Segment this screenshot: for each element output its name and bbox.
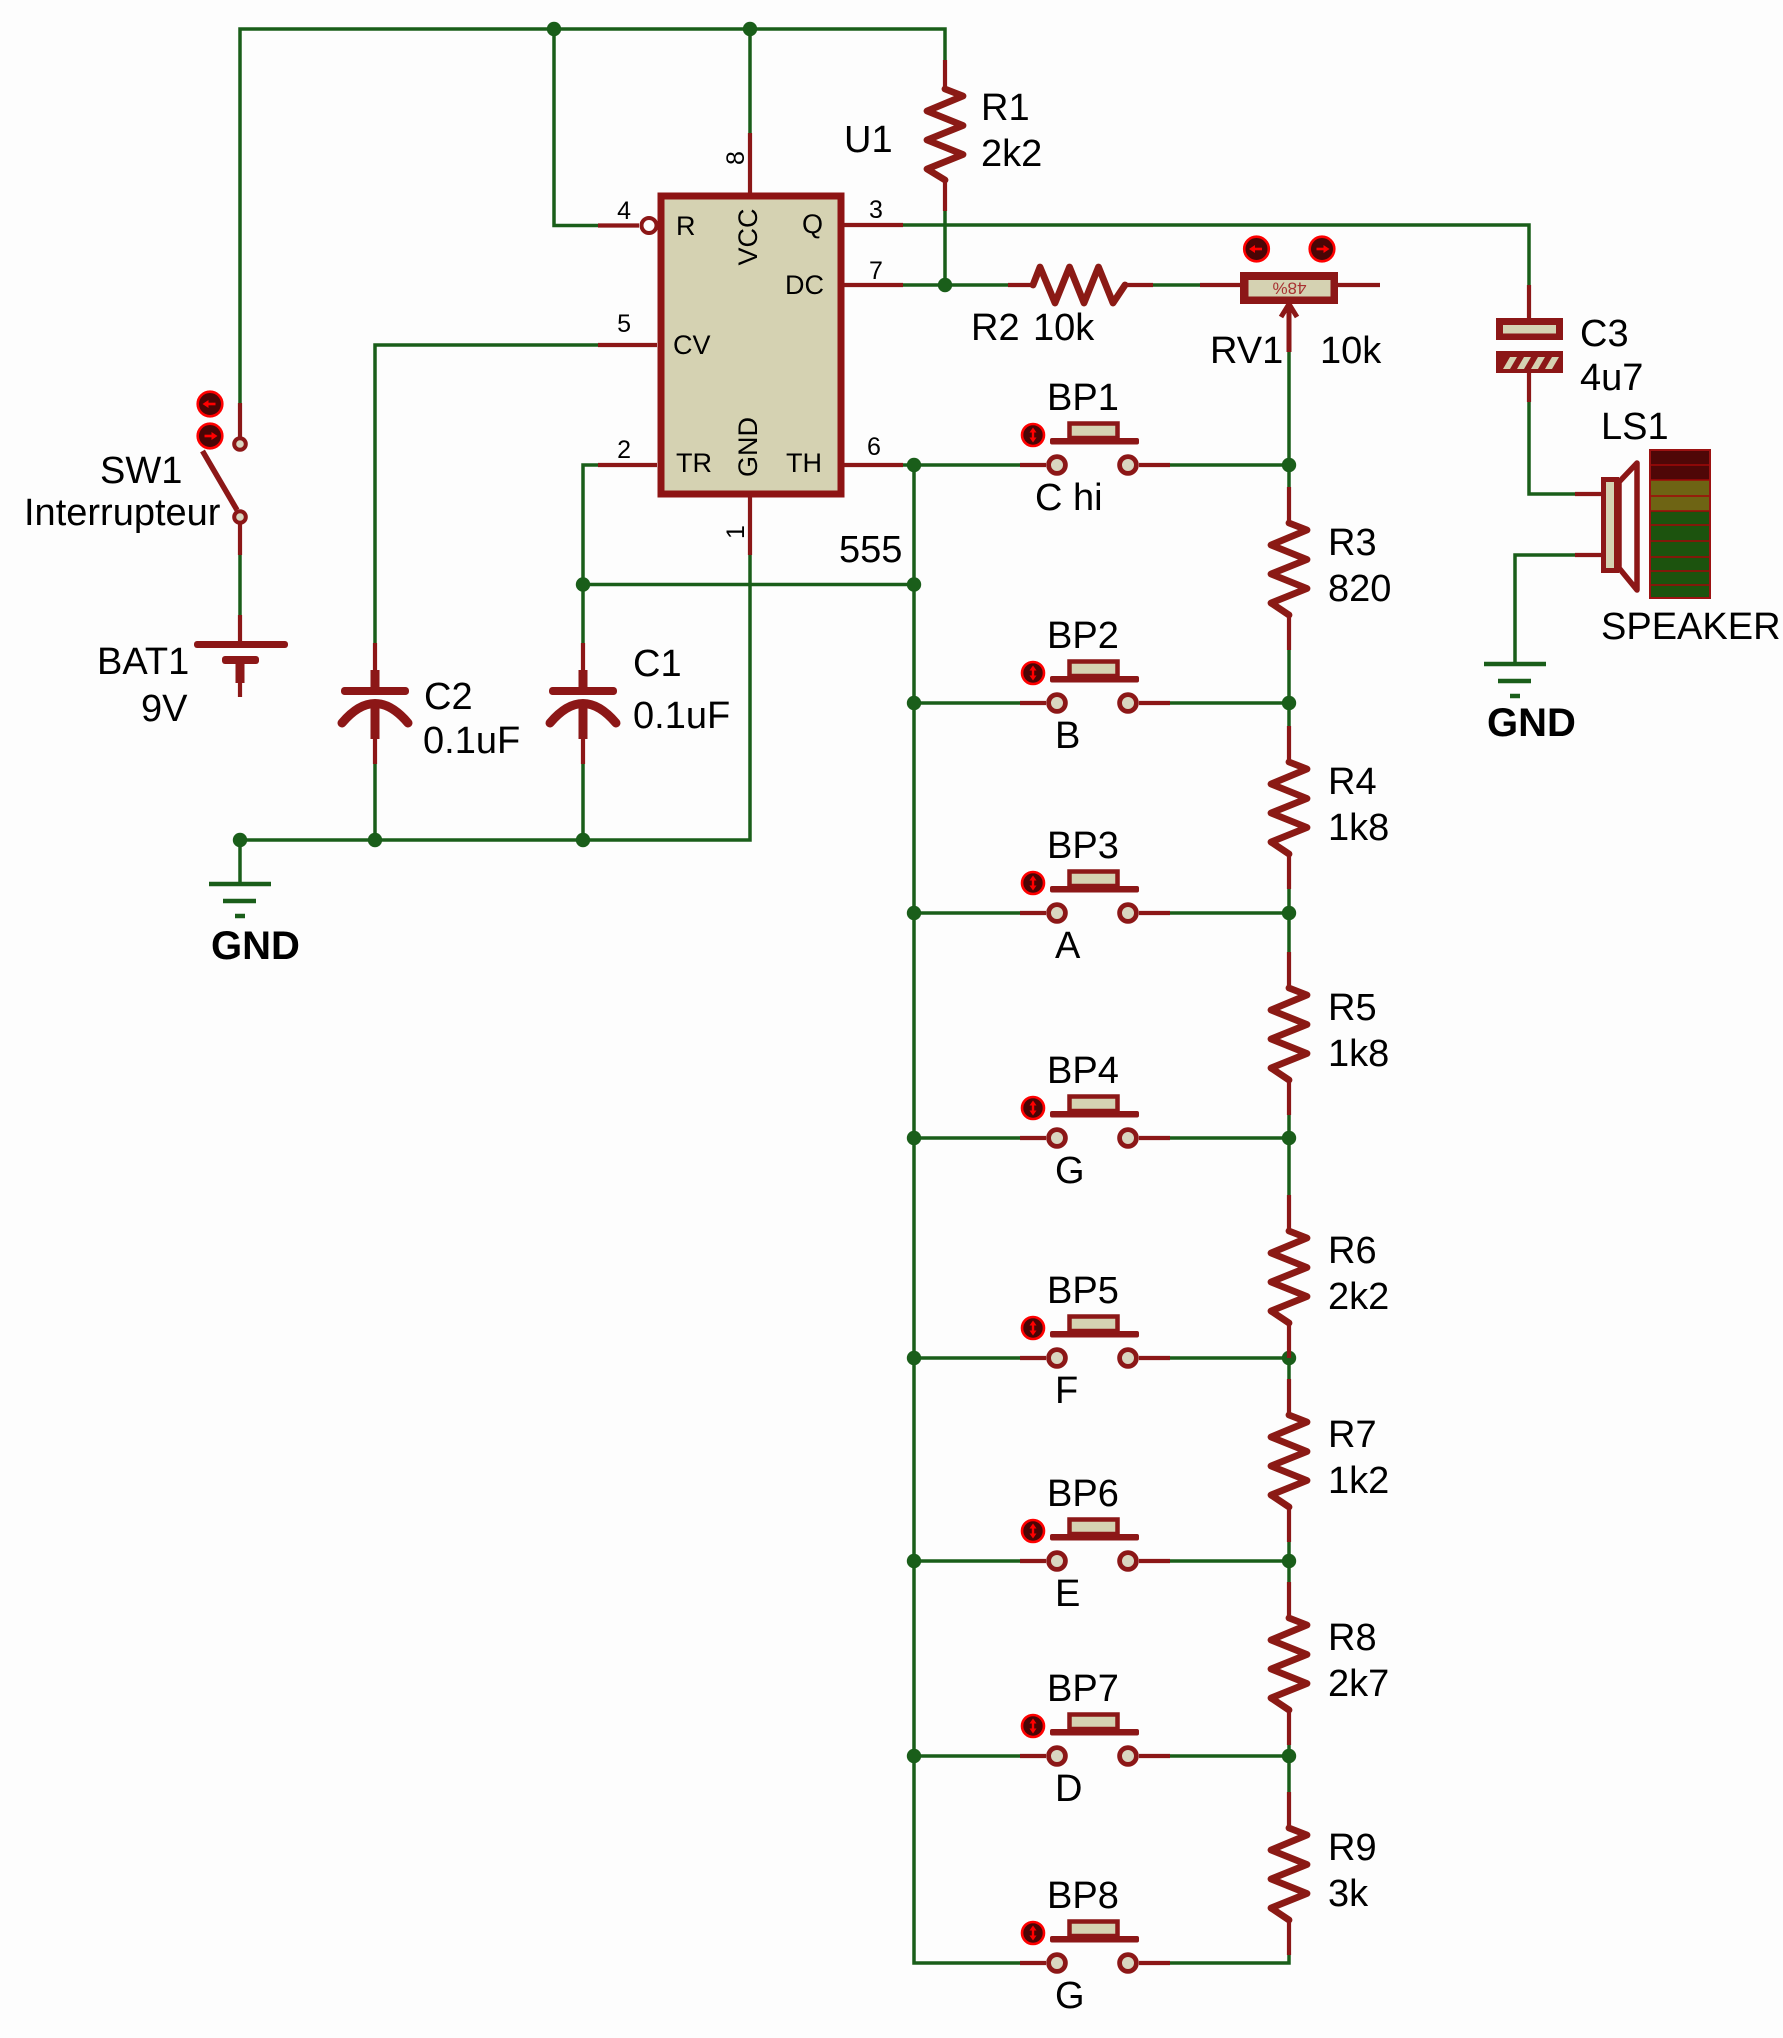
junction column y1756 bbox=[907, 1749, 921, 1763]
resistor R5 body bbox=[1271, 988, 1307, 1080]
actuator of BP8 bbox=[1022, 1922, 1044, 1944]
svg-text:SPEAKER: SPEAKER bbox=[1601, 606, 1781, 648]
capacitor C3 top lead bbox=[1527, 285, 1531, 319]
battery BAT1 plates bbox=[194, 641, 288, 683]
wire speaker to ground bbox=[1515, 555, 1575, 664]
speaker LS1 striped box bbox=[1650, 450, 1710, 598]
svg-text:R7: R7 bbox=[1328, 1414, 1377, 1456]
svg-text:E: E bbox=[1055, 1573, 1080, 1615]
resistor R3 body bbox=[1271, 523, 1307, 615]
resistor R7 body bbox=[1271, 1415, 1307, 1507]
wire VCC top rail bbox=[240, 29, 945, 403]
actuator of BP1 bbox=[1022, 424, 1044, 446]
capacitor C1 bbox=[549, 643, 617, 764]
switch SW1 bottom lead bbox=[238, 524, 242, 555]
resistor R8 body bbox=[1271, 1618, 1307, 1710]
push button BP3 bbox=[1020, 872, 1170, 922]
junction wiper / BP1 / R3 bbox=[1282, 458, 1296, 472]
actuator of BP2 bbox=[1022, 662, 1044, 684]
svg-text:R4: R4 bbox=[1328, 761, 1377, 803]
resistor R2 left lead bbox=[1008, 283, 1034, 287]
resistor R5 bottom lead bbox=[1287, 1079, 1291, 1115]
junction TH / BP1 / column bbox=[907, 458, 921, 472]
speaker LS1 driver and cone bbox=[1604, 463, 1638, 590]
pin 5 CV stub bbox=[598, 343, 657, 347]
SW1 open actuator bbox=[198, 392, 223, 417]
svg-text:DC: DC bbox=[785, 270, 824, 300]
svg-text:6: 6 bbox=[867, 433, 881, 461]
resistor R1 bottom lead bbox=[943, 180, 947, 211]
actuator of BP6 bbox=[1022, 1520, 1044, 1542]
svg-text:1k2: 1k2 bbox=[1328, 1460, 1389, 1502]
svg-text:8: 8 bbox=[722, 151, 750, 165]
wire row y1561 right bbox=[1170, 1559, 1289, 1563]
wire row y1358 left bbox=[914, 1356, 1020, 1360]
RV1 right pin bbox=[1338, 283, 1380, 287]
svg-text:4u7: 4u7 bbox=[1580, 357, 1643, 399]
junction chain y913 bbox=[1282, 906, 1296, 920]
wire row y703 right bbox=[1170, 701, 1289, 705]
junction C1 / 555 link bbox=[576, 577, 590, 591]
junction column y1138 bbox=[907, 1131, 921, 1145]
battery BAT1 bottom lead bbox=[238, 683, 242, 697]
SW1 close actuator bbox=[198, 424, 223, 449]
wire chain segment R7-R8 bbox=[1287, 1540, 1291, 1584]
wire row y913 left bbox=[914, 911, 1020, 915]
speaker bottom pin bbox=[1575, 553, 1602, 557]
wire ground rail to pin 1 bbox=[240, 555, 750, 840]
actuator of BP7 bbox=[1022, 1715, 1044, 1737]
svg-text:C3: C3 bbox=[1580, 313, 1629, 355]
svg-text:VCC: VCC bbox=[733, 208, 763, 265]
push button BP6 bbox=[1020, 1520, 1170, 1570]
svg-text:Interrupteur: Interrupteur bbox=[24, 492, 221, 534]
svg-text:10k: 10k bbox=[1320, 330, 1382, 372]
resistor R1 body bbox=[927, 89, 963, 180]
svg-text:1k8: 1k8 bbox=[1328, 1033, 1389, 1075]
junction 555 link / column bbox=[907, 577, 921, 591]
push button BP7 bbox=[1020, 1715, 1170, 1765]
svg-text:D: D bbox=[1055, 1768, 1082, 1810]
RV1 increase actuator bbox=[1310, 237, 1335, 262]
svg-text:C hi: C hi bbox=[1035, 477, 1103, 519]
svg-text:R2: R2 bbox=[971, 307, 1020, 349]
junction chain y1138 bbox=[1282, 1131, 1296, 1145]
junction column y1561 bbox=[907, 1554, 921, 1568]
wire TH pin to BP1 bbox=[903, 463, 1020, 467]
svg-text:R: R bbox=[676, 211, 696, 241]
wire reset pin 4 branch bbox=[554, 29, 598, 226]
svg-text:2: 2 bbox=[617, 436, 631, 464]
speaker top pin bbox=[1575, 492, 1602, 496]
push button BP4 bbox=[1020, 1097, 1170, 1147]
svg-text:U1: U1 bbox=[844, 119, 893, 161]
svg-text:TR: TR bbox=[676, 448, 712, 478]
wire CV pin to C2 bbox=[375, 345, 598, 643]
wire row y1756 left bbox=[914, 1754, 1020, 1758]
resistor R3 top lead bbox=[1287, 487, 1291, 524]
svg-text:GND: GND bbox=[211, 924, 300, 968]
pin 6 TH stub bbox=[844, 463, 903, 467]
wire TR pin to C1 bbox=[583, 465, 598, 643]
svg-text:F: F bbox=[1055, 1370, 1078, 1412]
wire switch to battery bbox=[238, 555, 242, 615]
wire Q output to C3 bbox=[903, 225, 1529, 285]
pin 4 R stub bbox=[598, 223, 639, 227]
svg-text:48%: 48% bbox=[1272, 279, 1306, 298]
svg-text:1: 1 bbox=[722, 525, 750, 539]
svg-text:C2: C2 bbox=[424, 676, 473, 718]
junction R1 / DC / R2 bbox=[938, 278, 952, 292]
svg-text:9V: 9V bbox=[141, 688, 188, 730]
resistor R7 top lead bbox=[1287, 1379, 1291, 1416]
wire chain segment R6-R7 bbox=[1287, 1356, 1291, 1381]
resistor R4 bottom lead bbox=[1287, 853, 1291, 889]
RV1 wiper arrow bbox=[1281, 304, 1297, 352]
wire chain segment R5-R6 bbox=[1287, 1113, 1291, 1197]
resistor R5 top lead bbox=[1287, 952, 1291, 989]
svg-text:5: 5 bbox=[617, 310, 631, 338]
svg-text:10k: 10k bbox=[1033, 307, 1095, 349]
battery BAT1 top lead bbox=[238, 615, 242, 642]
pin 1 GND stub bbox=[748, 497, 752, 555]
svg-text:A: A bbox=[1055, 925, 1081, 967]
potentiometer RV1 body bbox=[1240, 272, 1338, 304]
resistor R8 top lead bbox=[1287, 1582, 1291, 1619]
IC U1 555 body bbox=[661, 196, 841, 494]
wire DC pin to R2 bbox=[903, 283, 1008, 287]
svg-text:R5: R5 bbox=[1328, 987, 1377, 1029]
junction chain y1561 bbox=[1282, 1554, 1296, 1568]
svg-text:BP3: BP3 bbox=[1047, 825, 1119, 867]
wire ground stub bbox=[238, 840, 242, 884]
svg-text:BAT1: BAT1 bbox=[97, 641, 189, 683]
svg-text:R6: R6 bbox=[1328, 1230, 1377, 1272]
capacitor C3 plates bbox=[1496, 318, 1563, 373]
ground symbol right bbox=[1484, 664, 1546, 696]
junction column y703 bbox=[907, 696, 921, 710]
pin 2 TR stub bbox=[598, 463, 657, 467]
wire chain segment R3-R4 bbox=[1287, 648, 1291, 728]
wire C1 node to button column bbox=[583, 583, 914, 587]
svg-text:G: G bbox=[1055, 1975, 1085, 2017]
svg-text:R3: R3 bbox=[1328, 522, 1377, 564]
RV1 left pin bbox=[1200, 283, 1241, 287]
resistor R6 top lead bbox=[1287, 1195, 1291, 1232]
svg-text:GND: GND bbox=[733, 417, 763, 477]
pin 4 inversion bubble bbox=[642, 218, 657, 233]
ground symbol left bbox=[209, 884, 271, 916]
svg-text:BP4: BP4 bbox=[1047, 1050, 1119, 1092]
wire R2 to RV1 bbox=[1153, 283, 1200, 287]
resistor R2 body bbox=[1033, 267, 1125, 303]
resistor R9 top lead bbox=[1287, 1792, 1291, 1829]
wire row y1138 left bbox=[914, 1136, 1020, 1140]
svg-text:555: 555 bbox=[839, 529, 902, 571]
switch SW1 blade and terminals bbox=[203, 438, 246, 523]
svg-text:R8: R8 bbox=[1328, 1617, 1377, 1659]
svg-text:0.1uF: 0.1uF bbox=[423, 720, 520, 762]
resistor R9 bottom lead bbox=[1287, 1919, 1291, 1955]
resistor R1 top lead bbox=[943, 60, 947, 90]
svg-text:SW1: SW1 bbox=[100, 450, 182, 492]
actuator of BP4 bbox=[1022, 1097, 1044, 1119]
resistor R4 body bbox=[1271, 762, 1307, 854]
wire C3 to speaker bbox=[1529, 402, 1575, 494]
wire row y465 right bbox=[1170, 463, 1289, 467]
resistor R2 right lead bbox=[1124, 283, 1153, 287]
push button BP1 bbox=[1020, 424, 1170, 474]
wire row y913 right bbox=[1170, 911, 1289, 915]
resistor R9 body bbox=[1271, 1828, 1307, 1920]
junction chain y1756 bbox=[1282, 1749, 1296, 1763]
pin 7 DC stub bbox=[844, 283, 903, 287]
push button BP2 bbox=[1020, 662, 1170, 712]
svg-text:BP2: BP2 bbox=[1047, 615, 1119, 657]
junction top rail / reset branch bbox=[547, 22, 561, 36]
resistor R3 bottom lead bbox=[1287, 614, 1291, 650]
pin 8 VCC stub bbox=[748, 133, 752, 193]
svg-text:R1: R1 bbox=[981, 87, 1030, 129]
svg-text:GND: GND bbox=[1487, 701, 1576, 745]
wire chain segment R9 to BP8 bbox=[1170, 1953, 1289, 1963]
svg-text:C1: C1 bbox=[633, 643, 682, 685]
resistor R6 body bbox=[1271, 1231, 1307, 1323]
svg-text:7: 7 bbox=[869, 257, 883, 285]
wire RV1 wiper down bbox=[1287, 350, 1291, 465]
push button BP5 bbox=[1020, 1317, 1170, 1367]
wire R1 bottom to DC node bbox=[943, 211, 947, 285]
RV1 decrease actuator bbox=[1244, 237, 1269, 262]
resistor R8 bottom lead bbox=[1287, 1709, 1291, 1745]
actuator of BP5 bbox=[1022, 1317, 1044, 1339]
wire left button column bbox=[914, 465, 1020, 1963]
junction column y913 bbox=[907, 906, 921, 920]
capacitor C3 bottom lead bbox=[1527, 373, 1531, 402]
svg-text:Q: Q bbox=[802, 209, 823, 239]
junction top rail / VCC branch bbox=[743, 22, 757, 36]
wire C1 bottom bbox=[581, 764, 585, 840]
svg-text:4: 4 bbox=[617, 197, 631, 225]
junction chain y703 bbox=[1282, 696, 1296, 710]
wire VCC pin 8 drop bbox=[748, 29, 752, 133]
wire row y1358 right bbox=[1170, 1356, 1289, 1360]
junction chain y1358 bbox=[1282, 1351, 1296, 1365]
wire chain segment R4-R5 bbox=[1287, 887, 1291, 954]
svg-text:BP5: BP5 bbox=[1047, 1270, 1119, 1312]
svg-text:B: B bbox=[1055, 715, 1080, 757]
resistor R6 bottom lead bbox=[1287, 1322, 1291, 1358]
svg-text:0.1uF: 0.1uF bbox=[633, 695, 730, 737]
capacitor C2 bbox=[341, 643, 409, 764]
svg-text:2k2: 2k2 bbox=[981, 133, 1042, 175]
wire chain segment R8-R9 bbox=[1287, 1743, 1291, 1794]
svg-text:BP8: BP8 bbox=[1047, 1875, 1119, 1917]
wire row y1138 right bbox=[1170, 1136, 1289, 1140]
svg-text:2k7: 2k7 bbox=[1328, 1663, 1389, 1705]
junction column y1358 bbox=[907, 1351, 921, 1365]
svg-text:1k8: 1k8 bbox=[1328, 807, 1389, 849]
svg-text:3k: 3k bbox=[1328, 1873, 1369, 1915]
svg-text:LS1: LS1 bbox=[1601, 406, 1669, 448]
svg-text:G: G bbox=[1055, 1150, 1085, 1192]
junction C1 / ground rail bbox=[576, 833, 590, 847]
push button BP8 bbox=[1020, 1922, 1170, 1972]
resistor R7 bottom lead bbox=[1287, 1506, 1291, 1542]
wire row y1561 left bbox=[914, 1559, 1020, 1563]
svg-text:3: 3 bbox=[869, 196, 883, 224]
junction C2 / ground rail bbox=[368, 833, 382, 847]
wire row y703 left bbox=[914, 701, 1020, 705]
switch SW1 top lead bbox=[238, 403, 242, 437]
wire row y1756 right bbox=[1170, 1754, 1289, 1758]
wire chain segment below wiper node bbox=[1287, 465, 1291, 489]
actuator of BP3 bbox=[1022, 872, 1044, 894]
svg-text:RV1: RV1 bbox=[1210, 330, 1283, 372]
svg-text:BP1: BP1 bbox=[1047, 377, 1119, 419]
svg-text:2k2: 2k2 bbox=[1328, 1276, 1389, 1318]
junction battery / ground rail bbox=[233, 833, 247, 847]
pin 3 Q stub bbox=[844, 223, 903, 227]
wire C2 bottom bbox=[373, 764, 377, 840]
svg-text:BP7: BP7 bbox=[1047, 1668, 1119, 1710]
svg-text:820: 820 bbox=[1328, 568, 1391, 610]
svg-text:BP6: BP6 bbox=[1047, 1473, 1119, 1515]
svg-text:TH: TH bbox=[786, 448, 822, 478]
resistor R4 top lead bbox=[1287, 726, 1291, 763]
svg-text:CV: CV bbox=[673, 330, 711, 360]
svg-text:R9: R9 bbox=[1328, 1827, 1377, 1869]
